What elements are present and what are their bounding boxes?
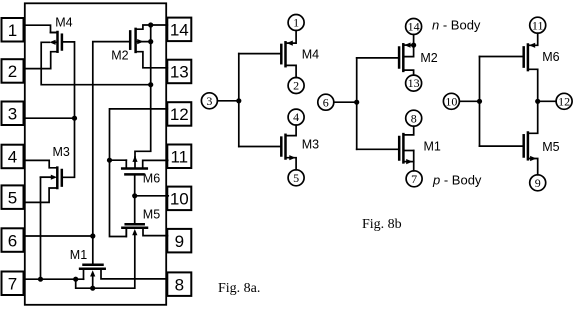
wire pin10 to gate node of M5/M6 [135, 195, 169, 197]
junction node pin14 on n-body rail [148, 22, 153, 27]
terminal circle 2 [288, 78, 304, 94]
wire M1 source arrow lead [403, 161, 413, 163]
wire gate bus M6-M5 [479, 57, 481, 147]
svg-text:3: 3 [8, 105, 17, 124]
svg-text:6: 6 [323, 95, 329, 109]
wire M5 source to circle9 [528, 159, 538, 175]
wire M1 gate lead [357, 148, 399, 150]
pin box 9 [167, 229, 191, 253]
svg-text:1: 1 [293, 16, 299, 30]
terminal circle 4 [288, 109, 304, 125]
wire pin2 to M4 source [24, 52, 58, 69]
svg-text:1: 1 [8, 21, 17, 40]
terminal circle 1 [288, 15, 304, 31]
terminal circle 11 [530, 17, 546, 33]
wire M2 gate lead [357, 57, 399, 59]
wire M5 body down to p-body rail [76, 235, 135, 289]
svg-text:8: 8 [411, 111, 417, 125]
pin box 5 [2, 185, 24, 209]
terminal circle 5 [288, 170, 304, 186]
junction node gate/circle10 [477, 99, 482, 104]
pin box 10 [167, 187, 191, 211]
pin box 7 [2, 272, 24, 296]
svg-text:2: 2 [8, 62, 17, 81]
junction node pin6/gates [90, 233, 95, 238]
junction node M4 body on n-body rail [148, 82, 153, 87]
terminal circle 10 [443, 93, 459, 109]
terminal circle 8 [406, 110, 422, 126]
junction node M2 body on n-body rail [148, 39, 153, 44]
wire M2 source jog to pin14 [136, 25, 168, 29]
wire pin1 to M4 drain [24, 25, 58, 32]
wire pin7 VSS rail [24, 278, 84, 280]
IC package outline [25, 3, 166, 305]
wire pin12 to drains of M5/M6 [110, 109, 168, 237]
wire gate of M6 down to gate of M5 (pin10 net) [134, 174, 136, 224]
wire M1 body to p-body rail [92, 276, 94, 288]
wire M1 body lead [403, 150, 413, 152]
terminal circle 3 [201, 93, 217, 109]
junction node pin3/gates [72, 116, 77, 121]
wire pin4 to M3 drain [24, 160, 58, 167]
wire M3 gate lead [239, 146, 281, 148]
wire M6 drain down to M5 drain [528, 69, 538, 133]
pin box 13 [167, 60, 191, 83]
svg-text:7: 7 [8, 275, 17, 294]
svg-text:10: 10 [170, 190, 189, 209]
svg-text:M4: M4 [302, 47, 319, 61]
wire M2 source arrow lead [403, 44, 413, 46]
wire M2 gate left and down to M1 gate (pin6 net) [93, 42, 130, 265]
wire M5 gate lead [480, 145, 523, 147]
svg-text:M1: M1 [424, 140, 441, 154]
svg-text:5: 5 [8, 188, 17, 207]
wire M3 body down to VSS rail [41, 177, 52, 279]
svg-text:4: 4 [293, 110, 299, 124]
junction node pin10/gates M5-M6 [132, 193, 137, 198]
wire circle1 to M4 source [286, 31, 297, 44]
wire M1 source/body to circle7 [413, 151, 415, 171]
svg-text:8: 8 [175, 275, 184, 294]
transistor M1 (NMOS, Fig 8a) [80, 265, 105, 277]
wire drain node to circle12 [538, 100, 556, 102]
terminal circle 6 [318, 94, 334, 110]
svg-text:10: 10 [445, 94, 457, 108]
svg-text:n - Body: n - Body [432, 18, 481, 33]
svg-text:M3: M3 [302, 137, 319, 151]
svg-text:12: 12 [558, 94, 570, 108]
svg-text:9: 9 [535, 176, 541, 190]
terminal circle 14 [406, 19, 422, 35]
wire M4 gate lead [239, 53, 281, 55]
svg-text:11: 11 [532, 18, 544, 32]
transistor M2 (PMOS, Fig 8a) [130, 29, 151, 52]
transistor M2 (Fig 8b) [399, 43, 411, 71]
svg-text:M2: M2 [111, 49, 128, 63]
svg-text:5: 5 [293, 171, 299, 185]
wire M2 drain to pin13 [136, 52, 168, 68]
junction node M3 body on VSS rail [38, 277, 43, 282]
svg-text:14: 14 [170, 21, 189, 40]
wire M4 body to n-body rail [41, 42, 151, 84]
pin box 3 [2, 102, 24, 126]
svg-text:7: 7 [411, 172, 417, 186]
wire n-body rail from pin14 down to M6 body [135, 25, 151, 157]
pin box 14 [167, 18, 191, 41]
pin box 11 [167, 145, 191, 169]
wire M3 source to circle5 [286, 158, 297, 170]
svg-text:2: 2 [293, 79, 299, 93]
wire M4 drain to circle2 [286, 65, 297, 77]
transistor M1 (Fig 8b) [399, 134, 412, 164]
svg-text:M2: M2 [420, 51, 437, 65]
transistor M5 (Fig 8b) [524, 133, 537, 162]
transistor M5 (NMOS, Fig 8a) [122, 224, 147, 236]
svg-text:13: 13 [170, 63, 189, 82]
transistor M6 (PMOS, Fig 8a) [110, 156, 147, 175]
wire pin3 to gate node of M3/M4 [24, 117, 75, 119]
svg-text:12: 12 [170, 105, 189, 124]
terminal circle 9 [530, 175, 546, 191]
svg-text:11: 11 [170, 148, 188, 167]
svg-text:M1: M1 [70, 248, 87, 262]
svg-text:M6: M6 [143, 172, 160, 186]
wire M5 source to pin9 [143, 228, 168, 236]
wire circle3 to gate node [217, 100, 238, 102]
wire circle8 to M1 drain [403, 126, 413, 135]
wire M2 drain to circle13 [403, 70, 413, 75]
wire circle6 to gate node [334, 101, 357, 103]
wire M6 gate lead [480, 56, 523, 58]
pin box 2 [2, 59, 24, 82]
svg-text:M5: M5 [542, 140, 559, 154]
svg-text:4: 4 [8, 148, 17, 167]
svg-text:M6: M6 [542, 50, 559, 64]
pin box 8 [167, 272, 191, 296]
transistor M4 (Fig 8b) [281, 41, 293, 67]
svg-text:Fig. 8a.: Fig. 8a. [218, 281, 260, 296]
svg-text:3: 3 [206, 94, 212, 108]
junction node body loop on VSS rail [73, 277, 78, 282]
svg-text:Fig. 8b: Fig. 8b [362, 217, 402, 232]
svg-text:M5: M5 [143, 208, 160, 222]
svg-text:14: 14 [408, 20, 420, 34]
wire circle14 to M2 source and body [403, 35, 413, 57]
svg-text:M4: M4 [55, 15, 72, 29]
wire circle11 to M6 source [528, 33, 538, 45]
junction node M2 source-body tie [411, 43, 416, 48]
svg-text:9: 9 [175, 232, 184, 251]
pin box 12 [167, 102, 191, 126]
transistor M3 (Fig 8b) [281, 135, 295, 161]
svg-text:p - Body: p - Body [432, 173, 482, 188]
junction node pin12/M6 drain [107, 158, 112, 163]
pin box 1 [2, 18, 24, 42]
wire pin5 to M3 source [24, 188, 58, 202]
junction node drains/circle12 [535, 99, 540, 104]
pin box 6 [2, 228, 24, 252]
junction node M1 body on p-body loop [90, 286, 95, 291]
svg-text:6: 6 [8, 231, 17, 250]
wire M1 drain to pin8 [101, 269, 167, 279]
wire M6 source to pin11 [143, 160, 168, 168]
transistor M4 (PMOS, Fig 8a) [49, 32, 62, 52]
svg-text:M3: M3 [53, 145, 70, 159]
wire gate of M4 down to gate of M3 (pin3 net) [62, 42, 74, 177]
wire M1 source to pin7 rail [83, 269, 85, 280]
junction node gate/circle3 [236, 98, 241, 103]
wire circle10 to gate node [459, 100, 479, 102]
pin box 4 [2, 145, 24, 169]
wire gate bus M2-M1 [356, 58, 358, 149]
transistor M3 (NMOS, Fig 8a) [41, 168, 62, 188]
wire pin6 to gate rail of M1/M2 [24, 235, 93, 237]
terminal circle 13 [406, 75, 422, 91]
wire gate bus M4-M3 [238, 54, 240, 147]
transistor M6 (Fig 8b) [524, 43, 536, 70]
wire circle4 to M3 drain [286, 125, 297, 136]
svg-text:13: 13 [408, 76, 420, 90]
junction node gate/circle6 [354, 100, 359, 105]
terminal circle 12 [556, 93, 572, 109]
terminal circle 7 [406, 171, 422, 187]
